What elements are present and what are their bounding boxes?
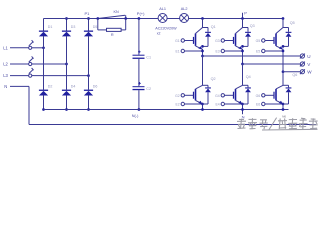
wire top rail inverter span: [203, 18, 284, 20]
transistor Q2 gate bar: [193, 92, 195, 99]
transistor Q6 body bar: [275, 89, 277, 101]
wire leg3 cathode to top rail: [88, 19, 90, 31]
diode D5: [84, 31, 93, 32]
junction emitter E1: [201, 50, 204, 53]
svg-text:E1: E1: [175, 50, 179, 54]
junction L1-leg1: [42, 46, 45, 49]
transistor Q1 collector diagonal: [196, 28, 203, 34]
transistor Q4 emitter arrowhead: [238, 101, 242, 104]
svg-text:KN: KN: [114, 10, 120, 14]
wire C2 to N(-) rail: [138, 90, 140, 109]
wire leg2 cathode to top rail: [66, 19, 68, 31]
junction C2-N(-): [138, 108, 141, 111]
wire leg1 cathode to top rail: [43, 19, 45, 31]
svg-text:Q3: Q3: [250, 24, 255, 28]
svg-text:L3: L3: [3, 73, 8, 78]
transistor Q3 collector diagonal: [236, 28, 243, 34]
freewheel diode of Q3 anode wire: [247, 37, 249, 47]
junction output leg1: [201, 55, 204, 58]
svg-text:M6: M6: [282, 114, 286, 118]
transistor Q4 gate bar: [233, 92, 235, 99]
svg-text:Q6: Q6: [292, 73, 297, 77]
junction leg3 top rail / node P1: [87, 17, 90, 20]
transistor Q3 emitter diagonal: [236, 46, 242, 49]
transistor Q6 collector wire: [282, 72, 284, 86]
transistor Q1 collector wire: [202, 19, 204, 28]
wire emitter terminal E6: [265, 103, 283, 105]
svg-text:C1: C1: [146, 56, 151, 60]
junction leg3 N(-) rail: [87, 108, 90, 111]
transistor Q1 emitter arrowhead: [198, 46, 202, 49]
transistor Q5 emitter diagonal: [276, 46, 282, 49]
transistor Q5 collector diagonal: [276, 28, 283, 34]
wire lamp AL1 to lamp AL2: [167, 18, 180, 20]
transistor Q4 collector link: [243, 84, 249, 86]
junction diode-emitter Q1: [201, 45, 204, 48]
transistor Q5 gate bar: [273, 37, 275, 44]
svg-text:P1: P1: [85, 11, 91, 16]
junction emitter E3: [241, 50, 244, 53]
wire emitter of Q5: [282, 49, 284, 72]
junction Q1 top rail: [201, 17, 204, 20]
terminal E5 circle: [262, 49, 265, 52]
wire output V: [243, 63, 301, 65]
wire output W: [283, 71, 300, 73]
svg-text:P: P: [244, 10, 247, 15]
wire emitter terminal E1: [185, 50, 203, 52]
junction emitter E2: [201, 103, 204, 106]
wire top rail to P(+): [126, 18, 139, 20]
svg-text:Q5: Q5: [290, 21, 295, 25]
terminal G4 circle: [221, 94, 224, 97]
transistor Q2 collector link: [203, 84, 209, 86]
transistor Q6 emitter diagonal: [276, 100, 282, 103]
wire gate G5: [265, 40, 274, 42]
wire gate G1: [185, 40, 194, 42]
freewheel diode of Q2: [207, 85, 209, 87]
junction switch left: [96, 17, 99, 20]
transistor Q2 body bar: [195, 89, 197, 101]
svg-text:G4: G4: [215, 94, 220, 98]
svg-text:D6: D6: [93, 85, 98, 89]
node P stub: [242, 13, 244, 19]
terminal G6 circle: [262, 94, 265, 97]
transistor Q3 gate bar: [233, 37, 235, 44]
wire leg2 input junction to D4: [66, 64, 68, 90]
svg-text:G6: G6: [256, 94, 261, 98]
transistor Q3 collector wire: [242, 19, 244, 28]
freewheel diode of Q4 anode wire: [247, 92, 249, 104]
wire emitter of Q1: [202, 49, 204, 56]
wire leg1 anode to input junction: [43, 36, 45, 48]
terminal U: [300, 54, 304, 58]
breaker switch QF pole 1: [10, 47, 28, 49]
wire P(+) to C1: [138, 19, 140, 55]
svg-text:E6: E6: [256, 103, 260, 107]
terminal G1 circle: [181, 39, 184, 42]
svg-text:D2: D2: [48, 85, 53, 89]
wire emitter of Q2: [202, 103, 204, 109]
svg-text:N(-): N(-): [132, 114, 139, 118]
junction Q2 N(-) rail: [201, 108, 204, 111]
svg-text:N: N: [242, 115, 245, 120]
transistor Q2 emitter arrowhead: [198, 101, 202, 104]
svg-text:AL2: AL2: [181, 7, 188, 11]
wire emitter terminal E5: [265, 50, 283, 52]
wire leg2 anode to input junction: [66, 36, 68, 64]
breaker switch QF pole 3: [10, 75, 28, 77]
transistor Q1 emitter diagonal: [196, 46, 202, 49]
diode D3: [62, 31, 71, 32]
wire output U: [203, 55, 301, 57]
svg-text:V: V: [307, 62, 311, 67]
svg-text:U: U: [307, 54, 310, 59]
transistor Q6 emitter arrowhead: [279, 101, 283, 104]
wire top rail P(+) to lamp AL1: [139, 18, 158, 20]
wire gate G4: [225, 94, 234, 96]
svg-text:AC220V20W: AC220V20W: [155, 27, 177, 31]
terminal V: [300, 62, 304, 66]
svg-text:P(+): P(+): [137, 11, 145, 16]
wire emitter terminal E4: [225, 103, 243, 105]
junction Q6 N(-) rail: [282, 108, 285, 111]
svg-text:Q1: Q1: [211, 25, 216, 29]
node N stub: [242, 110, 244, 115]
junction diode-emitter Q5: [282, 45, 285, 48]
freewheel diode of Q2 anode wire: [207, 92, 209, 104]
terminal E4 circle: [221, 102, 224, 105]
diode D6: [84, 90, 93, 91]
breaker switch QF pole 2: [10, 63, 28, 65]
freewheel diode of Q4: [247, 85, 249, 87]
wire leg3 D6 anode to N(-) rail: [88, 95, 90, 109]
wire leg2 D4 anode to N(-) rail: [66, 95, 68, 109]
transistor Q5 collector wire: [282, 19, 284, 28]
transistor Q2 emitter diagonal: [196, 100, 202, 103]
wire N bottom run: [29, 124, 316, 126]
wire resistor branch right: [121, 29, 126, 31]
capacitor C2: [133, 86, 145, 87]
svg-text:E3: E3: [215, 50, 219, 54]
polarity + of C2: [138, 82, 141, 84]
resistor R body: [107, 28, 122, 31]
wire gate G3: [225, 40, 234, 42]
junction P(+): [138, 17, 141, 20]
svg-text:D3: D3: [71, 25, 76, 29]
terminal E2 circle: [181, 102, 184, 105]
wire top rail switch span: [98, 18, 126, 20]
terminal G5 circle: [262, 39, 265, 42]
svg-text:L2: L2: [3, 62, 8, 67]
wire lamp AL2 to inverter node P: [188, 18, 202, 20]
transistor Q1 collector link: [203, 27, 209, 29]
junction emitter E6: [282, 103, 285, 106]
wire emitter of Q4: [242, 103, 244, 109]
transistor Q5 body bar: [275, 34, 277, 46]
junction switch right: [124, 17, 127, 20]
junction output leg3: [282, 70, 285, 73]
svg-text:AL1: AL1: [159, 7, 166, 11]
transistor Q4 body bar: [235, 89, 237, 101]
transistor Q4 emitter diagonal: [236, 100, 242, 103]
transistor Q5 emitter arrowhead: [279, 46, 283, 49]
wire gate G2: [185, 94, 194, 96]
transistor Q6 collector diagonal: [276, 85, 283, 89]
switch KN contact: [125, 15, 127, 18]
freewheel diode of Q6 anode wire: [288, 92, 290, 104]
svg-text:G3: G3: [215, 39, 220, 43]
wire C1 to C2: [138, 59, 140, 86]
wire leg1 input junction to D2: [43, 48, 45, 90]
wire N vertical drop: [28, 86, 30, 124]
terminal E3 circle: [221, 49, 224, 52]
wire leg3 input junction to D6: [88, 76, 90, 90]
junction Q4 N(-) rail: [241, 108, 244, 111]
freewheel diode of Q5: [288, 28, 290, 32]
wire emitter terminal E3: [225, 50, 243, 52]
terminal E6 circle: [262, 102, 265, 105]
freewheel diode of Q1: [207, 28, 209, 32]
wire L2 to bridge leg 2: [34, 63, 67, 65]
svg-text:C2: C2: [146, 87, 151, 91]
svg-text:G5: G5: [256, 39, 261, 43]
transistor Q2 collector wire: [202, 56, 204, 85]
watermark text (gray): [237, 118, 318, 130]
transistor Q3 collector link: [243, 27, 249, 29]
transistor Q2 collector diagonal: [196, 85, 203, 89]
diode D1: [39, 31, 48, 32]
wire L3 to bridge leg 3: [34, 75, 89, 77]
svg-text:D4: D4: [71, 85, 76, 89]
junction Q5 top rail: [282, 17, 285, 20]
freewheel diode of Q3: [247, 28, 249, 32]
terminal E1 circle: [181, 49, 184, 52]
svg-text:W: W: [307, 70, 312, 75]
transistor Q6 collector link: [283, 84, 289, 86]
wire emitter terminal E2: [185, 103, 203, 105]
wire top rail bridge to switch: [44, 18, 98, 20]
junction emitter E4: [241, 103, 244, 106]
svg-text:E5: E5: [256, 50, 260, 54]
wire leg1 D2 anode to N(-) rail: [43, 95, 45, 109]
switch KN blade: [98, 15, 125, 18]
svg-text:N: N: [4, 84, 7, 89]
junction emitter E5: [282, 50, 285, 53]
junction leg2 N(-) rail: [65, 108, 68, 111]
wire leg3 anode to input junction: [88, 36, 90, 76]
terminal G2 circle: [181, 94, 184, 97]
transistor Q3 body bar: [235, 34, 237, 46]
transistor Q3 emitter arrowhead: [238, 46, 242, 49]
transistor Q4 collector wire: [242, 64, 244, 85]
transistor Q6 gate bar: [273, 92, 275, 99]
freewheel diode of Q1 anode wire: [207, 37, 209, 47]
wire emitter of Q3: [242, 49, 244, 64]
svg-text:E4: E4: [215, 103, 219, 107]
diode D2: [39, 90, 48, 91]
svg-text:G2: G2: [175, 94, 180, 98]
svg-text:Q2: Q2: [211, 77, 216, 81]
junction output leg2: [241, 63, 244, 66]
junction leg1 N(-) rail: [42, 108, 45, 111]
junction diode-emitter Q3: [241, 45, 244, 48]
wire N(-) rail: [44, 109, 289, 111]
svg-text:Q4: Q4: [246, 75, 251, 79]
transistor Q5 collector link: [283, 27, 289, 29]
svg-text:D5: D5: [93, 25, 98, 29]
junction L3-leg3: [87, 74, 90, 77]
junction Q3 top rail: [241, 17, 244, 20]
wire L1 to bridge leg 1: [34, 47, 44, 49]
lamp AL1: [158, 14, 167, 23]
lamp AL2: [180, 14, 189, 23]
wire gate G6: [265, 94, 274, 96]
svg-text:G1: G1: [175, 39, 180, 43]
diode D4: [62, 90, 71, 91]
svg-text:D1: D1: [48, 25, 53, 29]
svg-text:R: R: [111, 33, 114, 37]
terminal W: [300, 70, 304, 74]
freewheel diode of Q5 anode wire: [288, 37, 290, 47]
transistor Q1 gate bar: [193, 37, 195, 44]
freewheel diode of Q6: [288, 85, 290, 87]
junction L2-leg2: [65, 63, 68, 66]
terminal G3 circle: [221, 39, 224, 42]
svg-text:x2: x2: [157, 32, 161, 36]
wire resistor branch left: [97, 19, 99, 30]
junction leg2 top rail: [65, 17, 68, 20]
wire emitter of Q6: [282, 103, 284, 109]
capacitor C1: [133, 55, 145, 56]
polarity + of C1: [138, 51, 141, 53]
svg-text:L1: L1: [3, 45, 8, 50]
transistor Q1 body bar: [195, 34, 197, 46]
svg-text:E2: E2: [175, 103, 179, 107]
transistor Q4 collector diagonal: [236, 85, 243, 89]
wire N input: [10, 85, 29, 87]
